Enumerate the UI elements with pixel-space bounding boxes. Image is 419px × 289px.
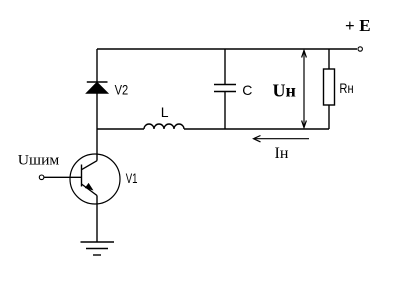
svg-text:C: C [242, 82, 252, 98]
transistor V1 collector diagonal [82, 161, 98, 170]
transistor V1 emitter diagonal [82, 184, 98, 196]
measurement arrow IH (pointing left) [254, 136, 310, 142]
resistor RH bottom lead [328, 105, 330, 129]
resistor RH body [324, 69, 335, 105]
wire middle rail right segment (inductor to resistor bottom) [184, 128, 329, 130]
capacitor C top lead [224, 49, 226, 85]
transistor V1 emitter arrow [85, 183, 94, 191]
svg-text:Uшим: Uшим [18, 152, 60, 168]
wire emitter to ground [96, 196, 98, 243]
svg-text:+: + [345, 16, 355, 35]
measurement arrow UH (double headed vertical) [302, 51, 307, 128]
capacitor C bottom lead [224, 92, 226, 130]
ground [81, 242, 115, 255]
resistor RH top lead [328, 49, 330, 69]
svg-text:Iн: Iн [275, 145, 289, 162]
svg-text:V2: V2 [115, 81, 129, 97]
node Uшим input terminal circle [39, 175, 44, 180]
svg-text:Uн: Uн [273, 81, 296, 101]
diode V2 cathode bar [87, 81, 108, 83]
svg-text:Rн: Rн [339, 80, 353, 96]
capacitor C plates [214, 85, 236, 92]
node +E terminal circle [358, 47, 362, 51]
transistor V1 base bar [81, 165, 83, 187]
wire middle rail left segment (collector junction to inductor) [97, 128, 144, 130]
svg-text:E: E [359, 16, 370, 35]
svg-text:V1: V1 [126, 170, 138, 186]
wire base lead from Uшим input [44, 176, 81, 178]
svg-text:L: L [161, 104, 169, 120]
wire top rail from diode cathode to +E terminal [97, 48, 357, 50]
wire left vertical (diode branch, +E rail down to transistor collector) [96, 49, 98, 161]
diode V2 triangle [87, 83, 108, 93]
inductor L coil [144, 124, 184, 129]
transistor V1 circle [70, 154, 120, 204]
